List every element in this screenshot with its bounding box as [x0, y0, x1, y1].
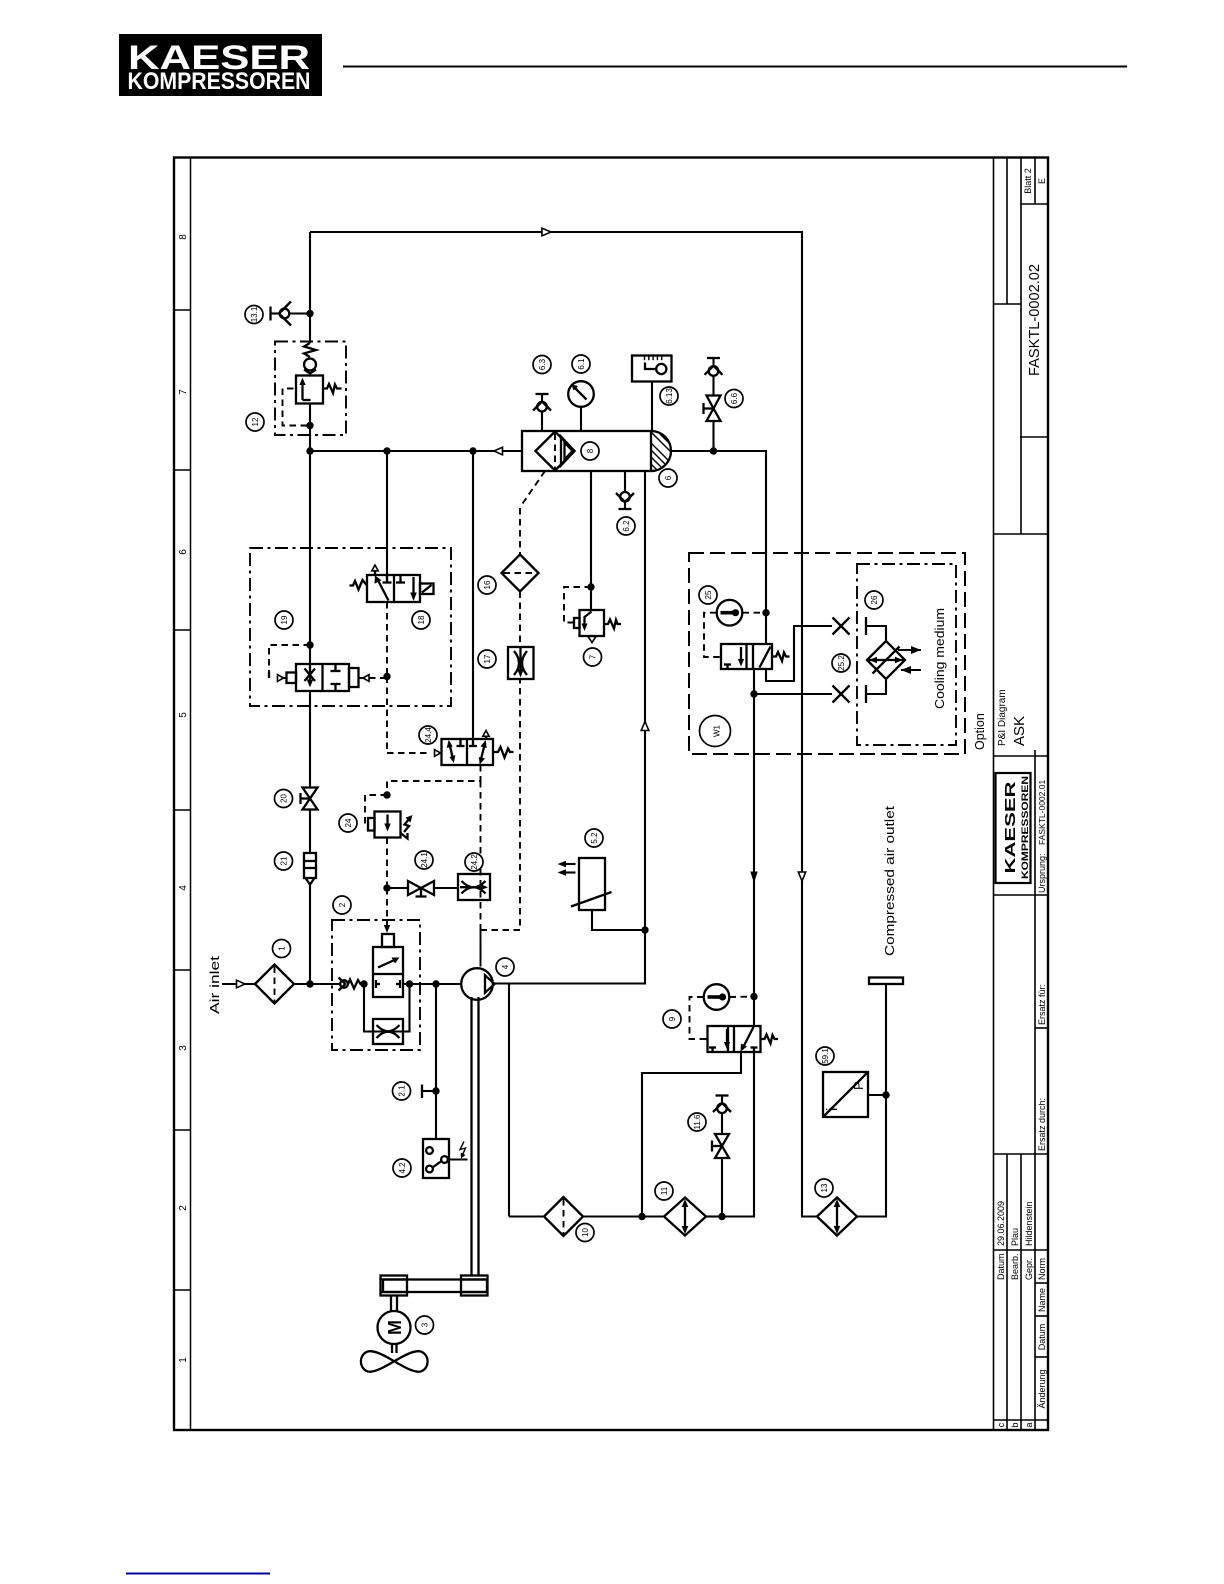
svg-text:FASKTL-0002.01: FASKTL-0002.01	[1037, 780, 1047, 845]
drive coupling housing	[381, 1276, 488, 1296]
label 6.6	[725, 390, 743, 408]
pressure tap 2.1	[422, 1085, 436, 1099]
svg-text:24.4: 24.4	[424, 727, 433, 743]
label 24.4	[419, 726, 437, 744]
svg-text:Ersatz durch:: Ersatz durch:	[1037, 1098, 1047, 1151]
level sensor 6.13	[632, 356, 672, 432]
wire x436 down to switch 4.2	[435, 984, 437, 1139]
label 17	[478, 650, 496, 668]
svg-text:24.1: 24.1	[420, 852, 429, 868]
valve 2 pilot line with arrow	[384, 888, 390, 933]
ruler numbers	[178, 234, 189, 1363]
label 8	[581, 442, 599, 460]
pressure valve 24	[365, 795, 413, 888]
wire valve9 left outlet to filter 11	[642, 1052, 741, 1217]
wire filter1 to valve2	[294, 983, 341, 985]
svg-text:6.1: 6.1	[577, 358, 586, 370]
svg-text:P: P	[851, 1081, 866, 1090]
shut-off valve 6.6 with drain	[704, 358, 723, 451]
label 21	[275, 852, 293, 870]
svg-text:19: 19	[280, 615, 289, 624]
check drain 6.2 under tank	[616, 471, 634, 509]
valve 2 check valve and spring	[339, 978, 365, 991]
svg-text:59.1: 59.1	[821, 1048, 830, 1064]
cooling medium arrows	[898, 646, 921, 674]
thermostatic sensor 5.2	[558, 858, 612, 910]
header rule line	[343, 66, 1127, 68]
compressed air outlet flange	[869, 978, 903, 985]
svg-text:Option: Option	[973, 713, 987, 750]
filter 11	[664, 1198, 706, 1236]
pressure sensor on valve 25	[704, 600, 766, 657]
label 5.2	[585, 829, 603, 847]
svg-text:c: c	[996, 1422, 1006, 1427]
label 13.1	[245, 306, 263, 324]
svg-text:Cooling medium: Cooling medium	[933, 608, 947, 709]
pressure gauge 6.1	[568, 381, 594, 431]
blocked connection lower	[833, 686, 850, 703]
label 19	[275, 611, 293, 629]
footer blue line	[126, 1573, 270, 1575]
svg-text:W1: W1	[713, 724, 722, 737]
svg-text:2: 2	[338, 902, 347, 907]
flow arrow down on bypass line	[798, 872, 805, 881]
regulator 12 valve body	[296, 376, 342, 404]
filter 1 inlet filter	[255, 965, 294, 1004]
pressure sensor on valve 9	[690, 984, 755, 1039]
svg-text:21: 21	[280, 856, 289, 865]
label 26	[865, 591, 883, 609]
strainer 21	[304, 853, 316, 885]
ruler tick dividers	[174, 310, 191, 1290]
svg-text:16: 16	[483, 580, 492, 589]
wire x473 to valve 24.4	[472, 451, 474, 746]
ruler strip line	[190, 158, 192, 1431]
option cooler group box 25.2	[857, 564, 956, 745]
svg-text:Compressed air outlet: Compressed air outlet	[883, 805, 897, 956]
blocked connection upper	[833, 618, 850, 635]
drain 6.3 on tank	[533, 394, 551, 431]
svg-text:E: E	[1037, 178, 1047, 184]
svg-text:M: M	[385, 1320, 405, 1335]
svg-text:6.6: 6.6	[730, 392, 739, 404]
flow arrow on top wire	[542, 228, 551, 236]
label 2	[333, 896, 351, 914]
heat exchanger 26	[867, 641, 905, 679]
svg-text:Änderung: Änderung	[1037, 1369, 1047, 1408]
label 18	[412, 611, 430, 629]
svg-text:26: 26	[870, 595, 879, 604]
svg-text:20: 20	[280, 794, 289, 803]
svg-text:P&I Diagram: P&I Diagram	[997, 689, 1008, 746]
valve 2 main inlet valve body	[373, 934, 403, 997]
wire x310 valve20 to strainer 21	[309, 810, 311, 854]
svg-text:a: a	[1024, 1422, 1034, 1427]
label 6.13	[660, 387, 678, 405]
label 24.1	[415, 851, 433, 869]
i/P converter 59.1	[823, 1072, 868, 1117]
svg-text:8: 8	[586, 448, 595, 453]
solenoid valve 9	[708, 1026, 779, 1052]
svg-text:13: 13	[820, 1183, 829, 1192]
W1 water group box	[689, 553, 965, 754]
separator element in tank	[536, 432, 575, 471]
svg-text:Norm: Norm	[1037, 1258, 1047, 1280]
svg-text:FASKTL-0002.02: FASKTL-0002.02	[1026, 264, 1043, 376]
label 7	[584, 648, 602, 666]
svg-text:17: 17	[483, 654, 492, 663]
pilot line into airend	[480, 930, 482, 967]
svg-text:6.13: 6.13	[665, 388, 674, 404]
svg-text:b: b	[1010, 1422, 1020, 1427]
svg-text:5.2: 5.2	[590, 832, 599, 844]
wire top bypass line to outlet filter 13	[310, 232, 817, 1217]
label 20	[275, 790, 293, 808]
solenoid valve 25	[721, 644, 790, 669]
flow arrow down to valve 9	[750, 872, 757, 884]
label 1	[273, 940, 291, 958]
svg-text:6: 6	[178, 549, 189, 555]
svg-text:6: 6	[664, 475, 673, 480]
svg-text:11: 11	[660, 1186, 669, 1195]
svg-text:24: 24	[344, 818, 353, 827]
drain valve 24.1	[387, 881, 458, 897]
motor 3 shaft	[391, 1296, 397, 1312]
svg-text:Air inlet: Air inlet	[207, 955, 222, 1014]
svg-text:9: 9	[668, 1016, 677, 1021]
svg-text:Ersatz für:: Ersatz für:	[1037, 984, 1047, 1025]
svg-text:Gepr.: Gepr.	[1024, 1258, 1034, 1280]
svg-text:2.1: 2.1	[398, 1085, 407, 1097]
orifice 24.2	[458, 874, 490, 900]
wire valve25 bottom branch to cooler	[754, 693, 832, 695]
label 10	[576, 1224, 594, 1242]
label 24.2	[465, 853, 483, 871]
wire 5.2 tee	[592, 910, 645, 930]
KAESER header logo	[119, 34, 322, 96]
svg-text:Datum: Datum	[1037, 1324, 1047, 1351]
valve 19 pneumatic valve	[269, 645, 387, 691]
svg-text:8: 8	[178, 234, 189, 240]
title block texts	[996, 168, 1047, 1427]
pressure switch 4.2	[423, 1139, 468, 1178]
label 6.2	[617, 517, 635, 535]
dashed pilot tap from tank to filter 16	[521, 471, 546, 507]
svg-text:7: 7	[178, 389, 189, 395]
wire outlet line x886	[857, 984, 886, 1217]
fan blades	[361, 1351, 428, 1372]
wire airend drain down	[508, 984, 510, 1217]
outlet filter 13	[817, 1198, 857, 1236]
wire x310 down to valve 19	[309, 451, 311, 664]
svg-text:3: 3	[178, 1045, 189, 1051]
svg-text:1: 1	[178, 1357, 189, 1363]
drawing frame outer border	[174, 158, 1048, 1431]
water separator 10	[544, 1197, 583, 1236]
svg-text:5: 5	[178, 712, 189, 718]
svg-text:18: 18	[417, 615, 426, 624]
wire vessel bottom airend feed	[493, 471, 645, 984]
svg-text:KOMPRESSOREN: KOMPRESSOREN	[128, 68, 311, 95]
svg-text:KOMPRESSOREN: KOMPRESSOREN	[1020, 776, 1030, 879]
label W1	[700, 716, 731, 747]
svg-text:25.2: 25.2	[837, 655, 846, 671]
svg-text:4: 4	[178, 885, 189, 891]
svg-text:ASK: ASK	[1011, 716, 1028, 746]
svg-text:25: 25	[704, 590, 713, 599]
svg-text:Blatt 2: Blatt 2	[1023, 168, 1033, 194]
svg-text:6.3: 6.3	[538, 358, 547, 370]
svg-text:7: 7	[589, 654, 598, 659]
label 11	[655, 1182, 673, 1200]
pressure regulator 12 group box	[275, 342, 346, 436]
inlet flow arrow	[237, 980, 246, 988]
wire x310 through regulator 12 to junction	[309, 404, 311, 452]
svg-text:2: 2	[178, 1205, 189, 1211]
valve 18 2/2 solenoid valve	[350, 565, 434, 602]
label 3	[416, 1316, 434, 1334]
svg-text:29.06.2009: 29.06.2009	[996, 1201, 1006, 1246]
svg-text:Bearb.: Bearb.	[1010, 1253, 1020, 1280]
valve 2 bypass orifice loop	[364, 984, 410, 1044]
label 13	[815, 1179, 833, 1197]
title block KAESER logo	[996, 773, 1031, 883]
svg-text:Hildenstein: Hildenstein	[1024, 1201, 1034, 1246]
wire valve25 right loop	[766, 626, 832, 681]
label 25.2	[832, 654, 850, 672]
svg-text:12: 12	[251, 417, 260, 426]
pressure regulator 7	[564, 471, 621, 643]
wire valve2 to airend	[403, 983, 462, 985]
wire unloader line x310 upper	[309, 232, 311, 343]
valve 19 and 18 control group box	[250, 548, 451, 706]
flow arrow left on manifold	[494, 447, 503, 455]
label 16	[478, 576, 496, 594]
label 2.1	[393, 1082, 411, 1100]
motor 3 M	[378, 1311, 411, 1344]
condensate drain valve 11.6	[712, 1096, 731, 1217]
wire condensate manifold y1216	[509, 1215, 544, 1217]
label 6.3	[533, 356, 551, 374]
regulator 12 ball and seat	[304, 359, 316, 374]
control valve 24.4	[387, 677, 520, 967]
wire vessel right to W1	[670, 451, 766, 644]
motor shaft double line	[472, 997, 479, 1276]
label 25	[699, 586, 717, 604]
svg-text:3: 3	[421, 1322, 430, 1327]
svg-text:Datum: Datum	[996, 1253, 1006, 1280]
svg-text:24.2: 24.2	[470, 854, 479, 870]
label 12	[246, 413, 264, 431]
svg-text:Plau: Plau	[1010, 1228, 1020, 1246]
wire x310 strainer 21 to inlet junction	[309, 885, 311, 985]
svg-text:11.6: 11.6	[693, 1114, 702, 1130]
pilot orifice 17	[508, 647, 534, 679]
label 11.6	[688, 1113, 706, 1131]
svg-text:1: 1	[278, 946, 287, 951]
svg-text:KAESER: KAESER	[1002, 781, 1019, 873]
svg-text:4: 4	[501, 964, 510, 969]
label 24	[339, 814, 357, 832]
inlet valve 2 group box	[332, 920, 420, 1050]
wire dashed valve18 outlet down	[386, 602, 388, 677]
regulator 12 spring	[304, 343, 316, 357]
svg-text:Name: Name	[1037, 1288, 1047, 1312]
airend 4 compressor	[461, 968, 494, 1000]
wire x310 valve19 to valve20	[309, 691, 311, 788]
wire manifold y451	[310, 450, 522, 452]
svg-text:4.2: 4.2	[398, 1162, 407, 1174]
svg-text:Ursprung:: Ursprung:	[1037, 853, 1047, 893]
label 6	[659, 469, 677, 487]
check valve 13.1 blow-off	[271, 302, 311, 326]
heat exchanger 26 piping	[866, 617, 886, 703]
label 59.1	[816, 1047, 834, 1065]
wire x387 to valve 18	[386, 451, 388, 582]
wire iP converter tee	[868, 1094, 886, 1096]
title block grid lines	[994, 158, 1049, 1431]
label 9	[663, 1010, 681, 1028]
fan shaft	[392, 1344, 397, 1353]
shut-off valve 20	[301, 788, 318, 810]
svg-text:i: i	[824, 1108, 841, 1111]
separator tank 8/6 body	[522, 429, 676, 477]
svg-text:10: 10	[581, 1228, 590, 1237]
pilot filter 16	[502, 508, 539, 647]
svg-text:13.1: 13.1	[250, 306, 259, 322]
wire valve9 right port down	[722, 1052, 754, 1217]
flow arrow up on airend feed	[641, 722, 649, 731]
label 6.1	[572, 355, 590, 373]
wire inlet	[222, 983, 255, 985]
label 4	[496, 958, 514, 976]
svg-text:6.2: 6.2	[622, 520, 631, 532]
label 4.2	[393, 1159, 411, 1177]
wire valve25 outlet down through W1 to valve 9	[753, 669, 755, 1026]
